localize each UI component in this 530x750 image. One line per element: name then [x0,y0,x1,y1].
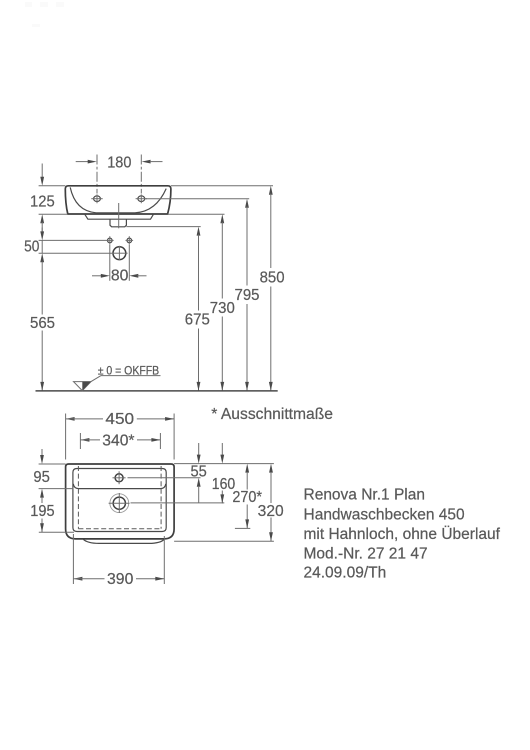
dimension 160 wall to drain [212,443,236,503]
dimension 450 overall width (plan) [66,411,175,460]
inner rim outline (plan) [73,469,166,532]
extension line bowl edge left (95/195) [39,488,74,490]
tap hole left (front view) [91,194,102,203]
dimension 125 rim to basin bottom [30,164,55,234]
washbasin body outline (front elevation) [65,186,171,214]
svg-text:340*: 340* [102,432,134,449]
siphon trap cover (front) [110,219,126,227]
dimension 270* cutout depth [232,464,262,529]
svg-text:80: 80 [111,268,129,285]
dimension 340* cutout width (plan) [80,432,160,449]
svg-text:795: 795 [235,287,260,304]
extension line drain level (50) [39,252,113,254]
extension line rim level left (125) [39,185,66,187]
extension line basin front right (320) [174,540,274,542]
dimension 565 drain height above floor [30,253,55,391]
svg-text:Renova Nr.1 Plan: Renova Nr.1 Plan [304,487,426,504]
floor level datum symbol [74,376,161,391]
basin lip below body (front) [85,214,154,219]
svg-text:95: 95 [33,469,50,486]
extension line fixing holes level (50) [39,239,107,241]
dimension 55 wall to tap hole [190,443,206,503]
extension line drain level (160) [131,502,225,504]
extension line wall edge left (95) [39,463,66,465]
dimension 795 floor to tap holes [235,199,260,391]
svg-text:24.09.09/Th: 24.09.09/Th [304,565,387,582]
svg-text:850: 850 [260,269,285,286]
svg-text:180: 180 [107,154,132,171]
dimension 850 floor to rim [260,186,285,391]
extension line rim level right (850) [171,185,273,187]
svg-text:195: 195 [30,503,54,520]
basin interior bowl curve (front) [70,187,166,212]
label plus/minus 0 = OKFFB [98,366,160,378]
svg-text:675: 675 [185,312,210,329]
svg-text:Handwaschbecken 450: Handwaschbecken 450 [304,506,466,523]
svg-text:55: 55 [190,464,206,481]
floor line [36,390,278,392]
dimension 390 front width (plan) [73,534,164,588]
dashed cutout outline (plan) [78,466,161,529]
front lip under rim (plan) [83,539,164,543]
extension line tap hole level (55) [128,477,201,479]
dimension 195 bowl edge to front (plan) [30,497,54,532]
svg-text:390: 390 [107,571,134,588]
svg-text:125: 125 [30,193,55,210]
extension line trap bottom (675) [126,226,200,228]
dimension 320 overall depth [258,464,284,542]
dimension 80 fixing hole spacing [92,245,147,285]
dimension 730 floor to basin bottom [210,214,235,391]
svg-text:320: 320 [258,503,284,520]
svg-text:Mod.-Nr. 27 21 47: Mod.-Nr. 27 21 47 [304,545,428,562]
svg-text:mit Hahnloch, ohne Überlauf: mit Hahnloch, ohne Überlauf [304,525,501,543]
svg-text:± 0 = OKFFB: ± 0 = OKFFB [98,366,160,378]
extension line tap hole level (795) [145,198,250,200]
waste drain (plan) [109,493,130,513]
waste drain hole (front) [112,246,127,260]
extension tick cutout depth (270*) [235,527,250,529]
tap hole (plan) [113,471,126,484]
bowl front edge divider (plan) [73,484,166,489]
extension line wall edge right (320) [174,463,274,465]
dimension 95 wall to bowl edge (plan) [33,449,50,498]
dimension 180 tap hole spacing (front view) [76,154,163,193]
dimension 50 fixing holes to drain [24,228,44,256]
svg-text:* Ausschnittmaße: * Ausschnittmaße [211,406,333,423]
washbasin outer outline (plan) [66,464,175,539]
svg-text:50: 50 [24,238,40,255]
fixing hole right (front) [126,236,134,244]
extension line basin bottom right (730) [168,213,225,215]
drain center axis line (front) [118,203,120,228]
faint scan marks (top left) [25,2,64,27]
svg-text:730: 730 [210,300,235,317]
extension line basin bottom left (125) [39,213,68,215]
fixing hole left (front) [106,236,114,244]
svg-text:565: 565 [30,315,55,332]
product description text block [304,487,501,582]
extension line rim bottom left (195) [39,531,74,533]
label * Ausschnittmasse [211,406,333,423]
svg-text:450: 450 [105,411,134,428]
dimension 675 floor to trap bottom [185,227,210,391]
tap hole right (front view) [136,194,147,203]
